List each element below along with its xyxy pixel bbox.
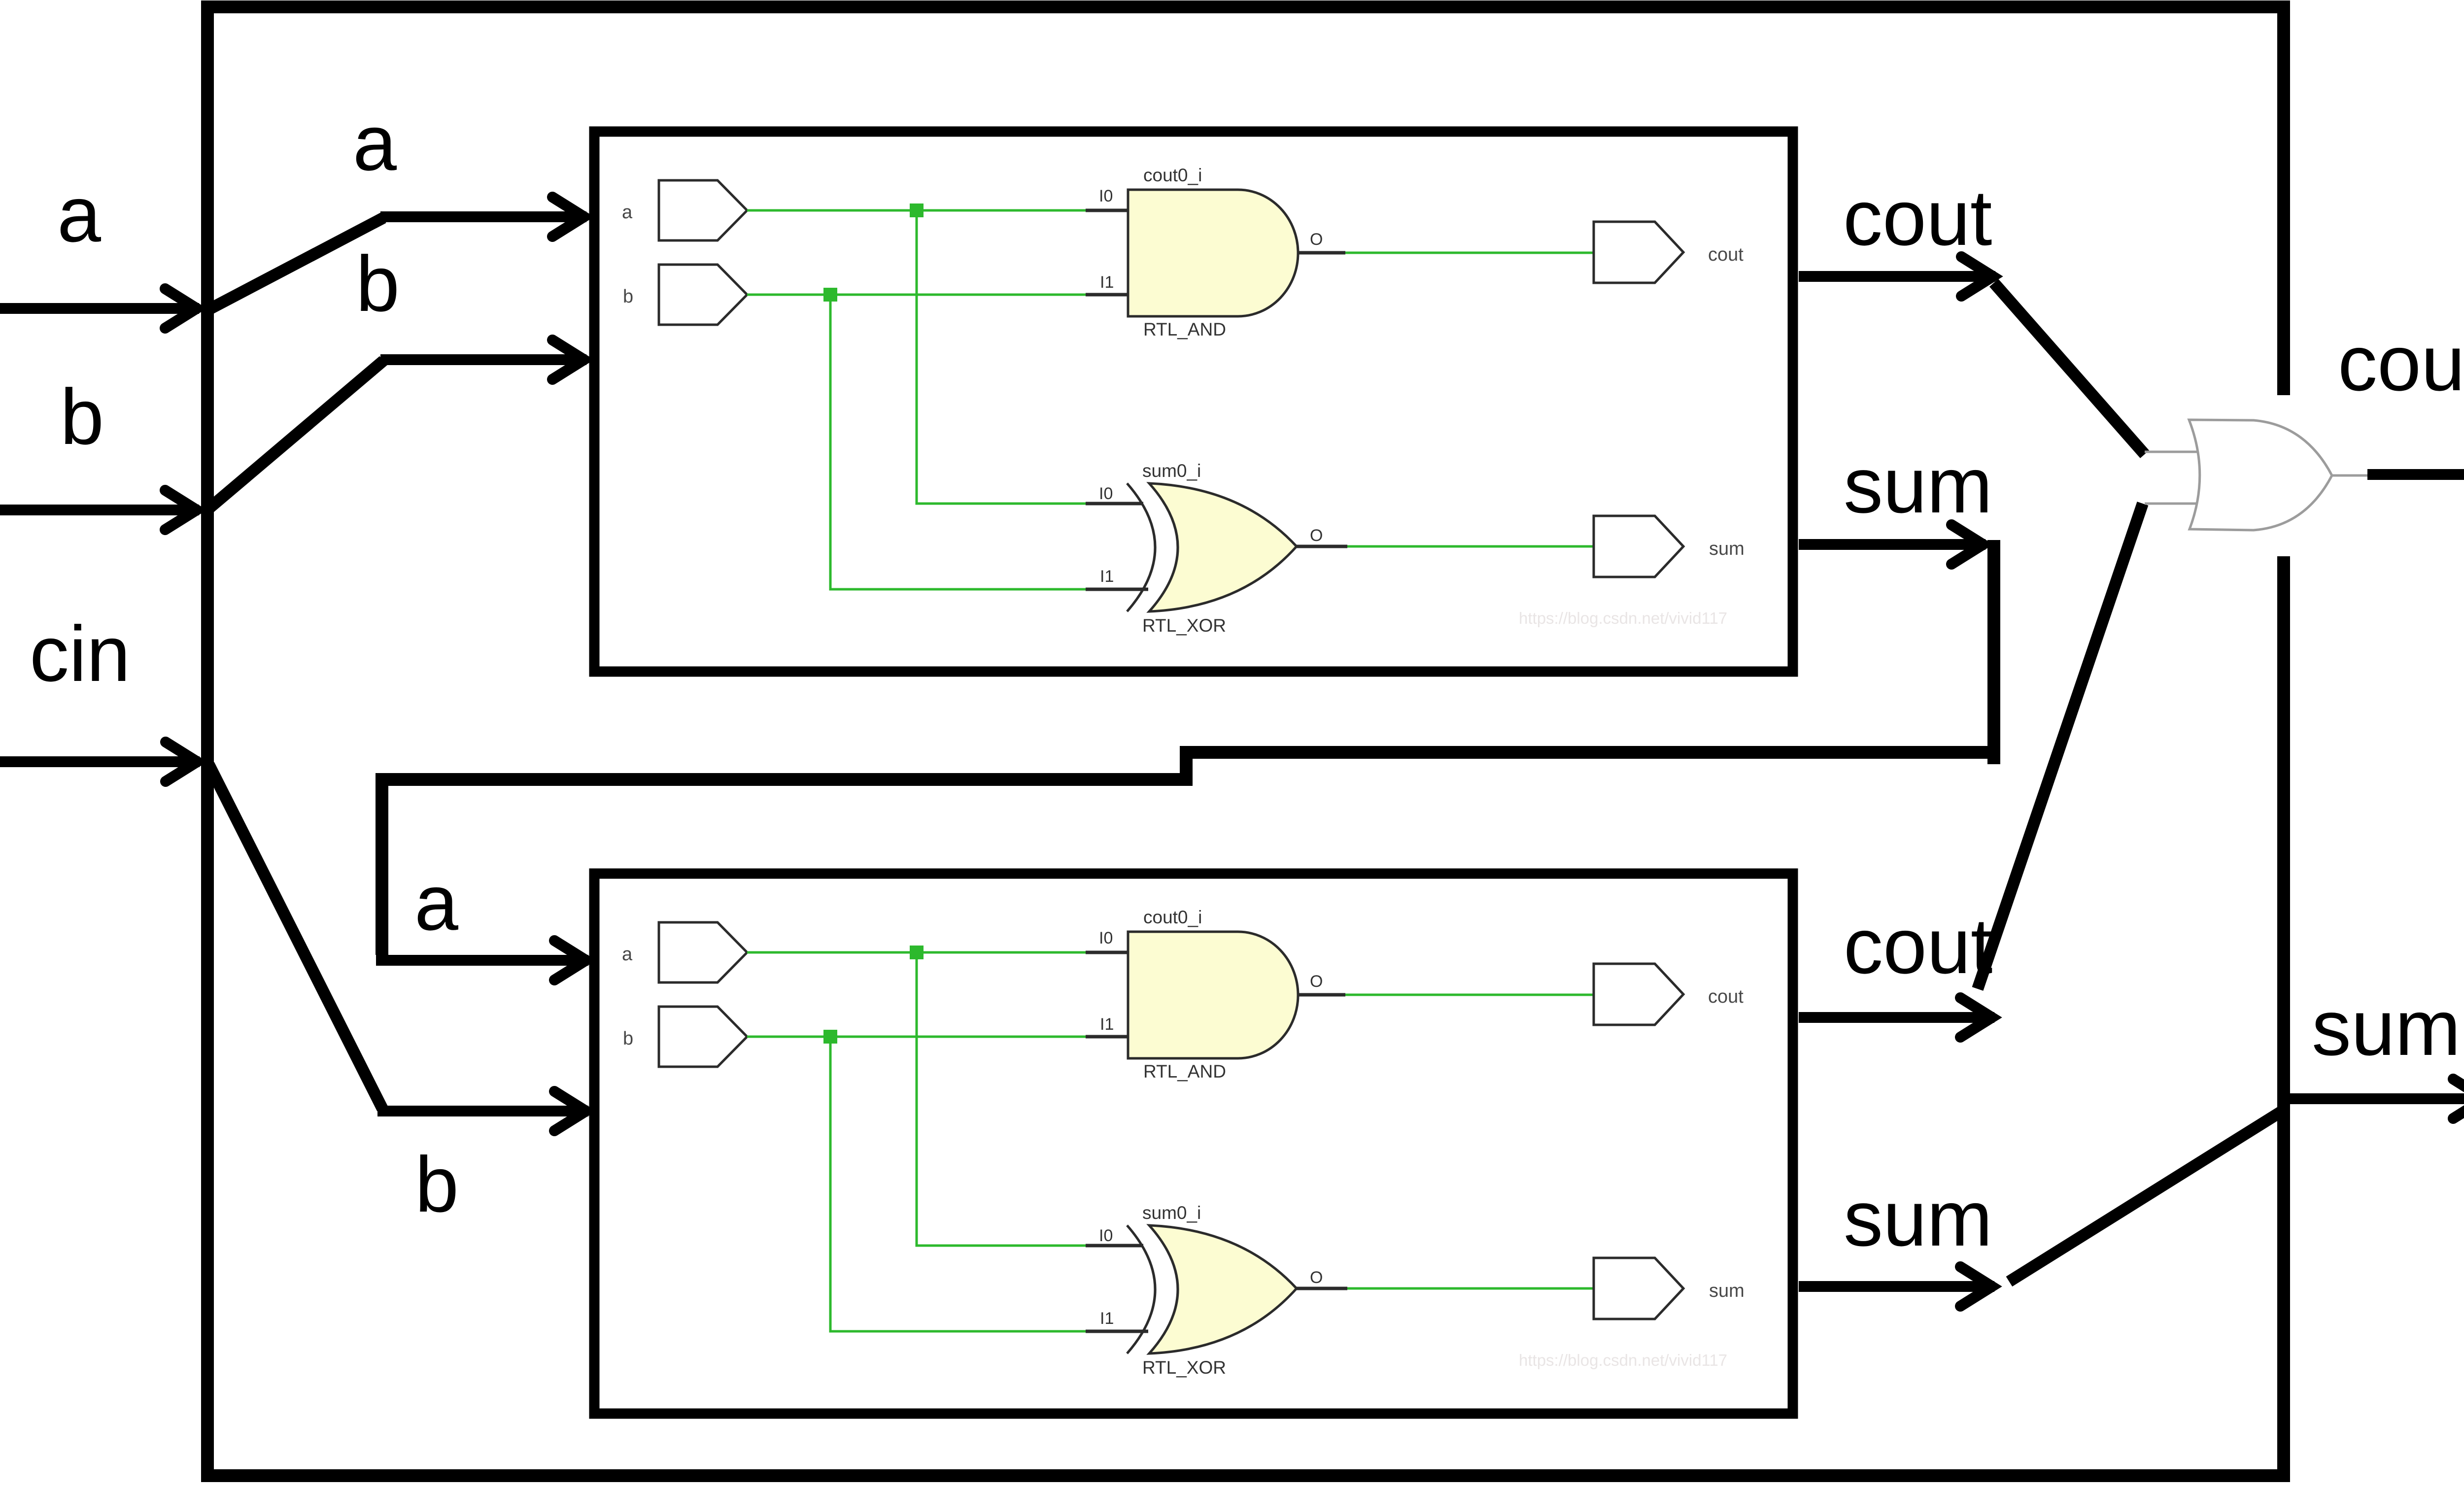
wire cin drop [209, 765, 382, 1109]
arrow U2 cout [1799, 1012, 1994, 1023]
svg-text:b: b [623, 286, 633, 307]
U2 AND gate cout0_i [1128, 932, 1298, 1058]
arrow U2 sum [1799, 1281, 1994, 1292]
svg-text:cout: cout [1708, 244, 1744, 265]
svg-text:https://blog.csdn.net/vivid117: https://blog.csdn.net/vivid117 [1519, 609, 1727, 627]
U1 XOR I0 stub [1086, 502, 1143, 506]
OR gate output stub [2332, 474, 2368, 477]
svg-text:sum: sum [2312, 983, 2461, 1072]
U1 XOR output stub [1297, 545, 1347, 548]
svg-text:I1: I1 [1100, 273, 1114, 292]
wire U2 sum to border [2009, 1110, 2284, 1282]
arrow a into U1 [380, 211, 586, 222]
U2 wire a branch to XOR I0 [917, 952, 1086, 1246]
arrow sum1 into U2 a [376, 955, 588, 966]
svg-text:b: b [415, 1140, 459, 1228]
wire sum of U1 routed to U2 a [382, 752, 2000, 955]
U1 AND I1 stub [1086, 293, 1129, 297]
svg-text:cout0_i: cout0_i [1143, 165, 1202, 185]
svg-text:sum: sum [1709, 539, 1745, 559]
wire a riser [209, 218, 383, 309]
U2 AND output stub [1298, 993, 1345, 997]
OR gate cout_i [2189, 420, 2332, 530]
OR gate input stub upper [2145, 451, 2199, 453]
U1 output port sum [1594, 516, 1683, 577]
U1 wire a branch to XOR I0 [917, 210, 1086, 504]
U2 XOR output stub [1297, 1287, 1347, 1290]
U2 XOR I1 stub [1086, 1330, 1148, 1333]
U2 wire a to AND I0 [747, 951, 1086, 954]
svg-text:O: O [1310, 1268, 1323, 1287]
OR gate input stub lower [2145, 503, 2199, 505]
svg-text:I1: I1 [1100, 1309, 1114, 1328]
svg-text:cout: cout [1708, 986, 1744, 1007]
U1 wire b branch to XOR I1 [830, 295, 1086, 589]
U1 AND gate cout0_i [1128, 190, 1298, 316]
U2 wire b to AND I1 [747, 1036, 1086, 1038]
U2 junction on net a [910, 946, 924, 959]
svg-text:I0: I0 [1099, 187, 1113, 205]
input arrow cin [0, 756, 200, 767]
svg-text:sum0_i: sum0_i [1142, 461, 1201, 481]
U2 wire AND O to cout port [1345, 994, 1594, 996]
U2 XOR gate sum0_i [1149, 1225, 1297, 1353]
svg-text:sum0_i: sum0_i [1142, 1203, 1201, 1223]
U2 wire XOR O to sum port [1347, 1287, 1594, 1290]
svg-text:sum: sum [1844, 441, 1992, 529]
half-adder U1 box [594, 132, 1793, 672]
U2 XOR outer arc [1127, 1225, 1155, 1353]
arrow cin into U2 b [377, 1106, 588, 1116]
U1 wire XOR O to sum port [1347, 545, 1594, 548]
U1 AND I0 stub [1086, 209, 1129, 212]
U1 wire AND O to cout port [1345, 252, 1594, 254]
svg-text:sum: sum [1709, 1281, 1745, 1301]
svg-text:b: b [356, 239, 400, 328]
svg-text:a: a [622, 202, 633, 223]
svg-text:O: O [1310, 526, 1323, 545]
arrow b into U1 [380, 354, 586, 365]
svg-text:I0: I0 [1099, 484, 1113, 503]
svg-text:a: a [622, 944, 633, 965]
U2 wire b branch to XOR I1 [830, 1037, 1086, 1331]
svg-text:I1: I1 [1100, 1015, 1114, 1034]
U1 input port a [659, 180, 747, 240]
input arrow a [0, 303, 199, 314]
U2 output port sum [1594, 1258, 1683, 1319]
svg-text:RTL_XOR: RTL_XOR [1142, 1357, 1226, 1378]
input arrow b [0, 505, 199, 515]
U1 XOR outer arc [1127, 483, 1155, 611]
wire U1 cout to OR input [1994, 283, 2145, 454]
U2 XOR I0 stub [1086, 1244, 1143, 1248]
U1 output port cout [1594, 222, 1683, 283]
U1 wire b to AND I1 [747, 294, 1086, 296]
U2 junction on net b [823, 1030, 837, 1044]
U2 AND I1 stub [1086, 1035, 1129, 1039]
svg-text:a: a [414, 858, 458, 946]
svg-text:I1: I1 [1100, 567, 1114, 586]
output arrow cout [2367, 469, 2464, 480]
svg-text:a: a [57, 170, 101, 258]
U2 output port cout [1594, 964, 1683, 1025]
svg-text:I0: I0 [1099, 1226, 1113, 1245]
svg-text:O: O [1310, 972, 1323, 991]
U1 wire a to AND I0 [747, 209, 1086, 212]
svg-text:RTL_AND: RTL_AND [1143, 319, 1226, 339]
U1 XOR gate sum0_i [1149, 483, 1297, 611]
svg-text:cout: cout [2338, 319, 2464, 407]
output arrow sum [2290, 1093, 2464, 1104]
wire U2 cout to OR input [1978, 504, 2143, 989]
U1 AND output stub [1298, 251, 1345, 255]
svg-text:a: a [353, 99, 397, 187]
svg-text:b: b [623, 1028, 633, 1049]
U2 AND I0 stub [1086, 951, 1129, 954]
wire b riser [209, 361, 383, 508]
svg-text:cout: cout [1844, 902, 1992, 990]
svg-text:RTL_XOR: RTL_XOR [1142, 615, 1226, 636]
svg-text:cin: cin [30, 609, 131, 698]
svg-text:b: b [60, 372, 104, 461]
U2 input port a [659, 922, 747, 982]
half-adder U2 box [594, 874, 1793, 1414]
svg-text:https://blog.csdn.net/vivid117: https://blog.csdn.net/vivid117 [1519, 1351, 1727, 1369]
wire sum1 vertical drop [1987, 540, 2000, 764]
U2 input port b [659, 1007, 747, 1067]
svg-text:sum: sum [1844, 1174, 1992, 1262]
svg-text:cout0_i: cout0_i [1143, 907, 1202, 927]
svg-text:cout: cout [1843, 173, 1992, 262]
U1 input port b [659, 265, 747, 325]
U1 junction on net b [823, 288, 837, 302]
arrow U1 sum [1799, 539, 1985, 550]
U1 junction on net a [910, 203, 924, 217]
svg-text:O: O [1310, 230, 1323, 249]
svg-text:RTL_AND: RTL_AND [1143, 1061, 1226, 1081]
U1 XOR I1 stub [1086, 588, 1148, 591]
svg-text:I0: I0 [1099, 929, 1113, 947]
arrow U1 cout [1799, 271, 1995, 282]
